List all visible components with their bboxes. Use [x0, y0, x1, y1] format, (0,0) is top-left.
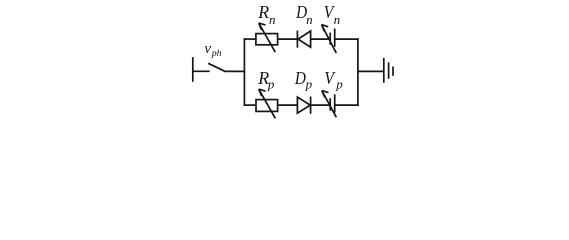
resistor Rn box: [256, 34, 278, 45]
svg-text:ph: ph: [211, 48, 222, 59]
svg-text:V: V: [324, 68, 335, 88]
ground bar 3: [392, 67, 394, 76]
switch blade: [208, 63, 225, 71]
wire top: Rn to Dn: [278, 38, 298, 40]
svg-text:p: p: [335, 77, 343, 92]
svg-text:R: R: [257, 2, 269, 22]
svg-text:p: p: [305, 77, 313, 92]
svg-text:p: p: [267, 77, 275, 92]
varactor Vn arrow: [322, 25, 337, 53]
diode Dp triangle: [297, 97, 310, 113]
varactor Vn plate 1: [329, 33, 331, 45]
right rail: [357, 38, 359, 106]
wire stub from terminal: [193, 70, 210, 72]
output wire: [357, 70, 384, 72]
wire bottom: Dp to Vp: [311, 104, 331, 106]
resistor Rn arrow: [259, 23, 276, 52]
varactor Vp plate 1: [329, 98, 331, 110]
wire top: Dn to Vn: [311, 38, 331, 40]
svg-text:v: v: [204, 41, 211, 57]
resistor Rp box: [256, 100, 278, 112]
varactor Vn plate 2: [334, 29, 336, 47]
diode Dn triangle: [298, 31, 311, 47]
ground bar 2: [388, 62, 390, 79]
wire top: rail to Rn: [244, 38, 256, 40]
wire bottom: rail to Rp: [244, 104, 257, 106]
wire top: Vn to right rail: [335, 38, 359, 40]
svg-text:D: D: [294, 68, 306, 88]
left rail: [243, 38, 245, 106]
svg-text:n: n: [269, 12, 276, 27]
diode Dn bar: [296, 31, 298, 48]
wire bottom: Rp to Dp: [278, 104, 298, 106]
diode Dp bar: [310, 97, 312, 114]
ground bar 1: [383, 58, 385, 83]
wire switch to left rail: [225, 70, 246, 72]
varactor Vp plate 2: [334, 94, 336, 113]
svg-text:n: n: [334, 12, 341, 27]
resistor Rp arrow: [259, 89, 276, 118]
terminal bar left: [192, 57, 194, 82]
svg-text:n: n: [306, 12, 313, 27]
wire bottom: Vp to right rail: [335, 104, 359, 106]
varactor Vp arrow: [322, 91, 337, 118]
